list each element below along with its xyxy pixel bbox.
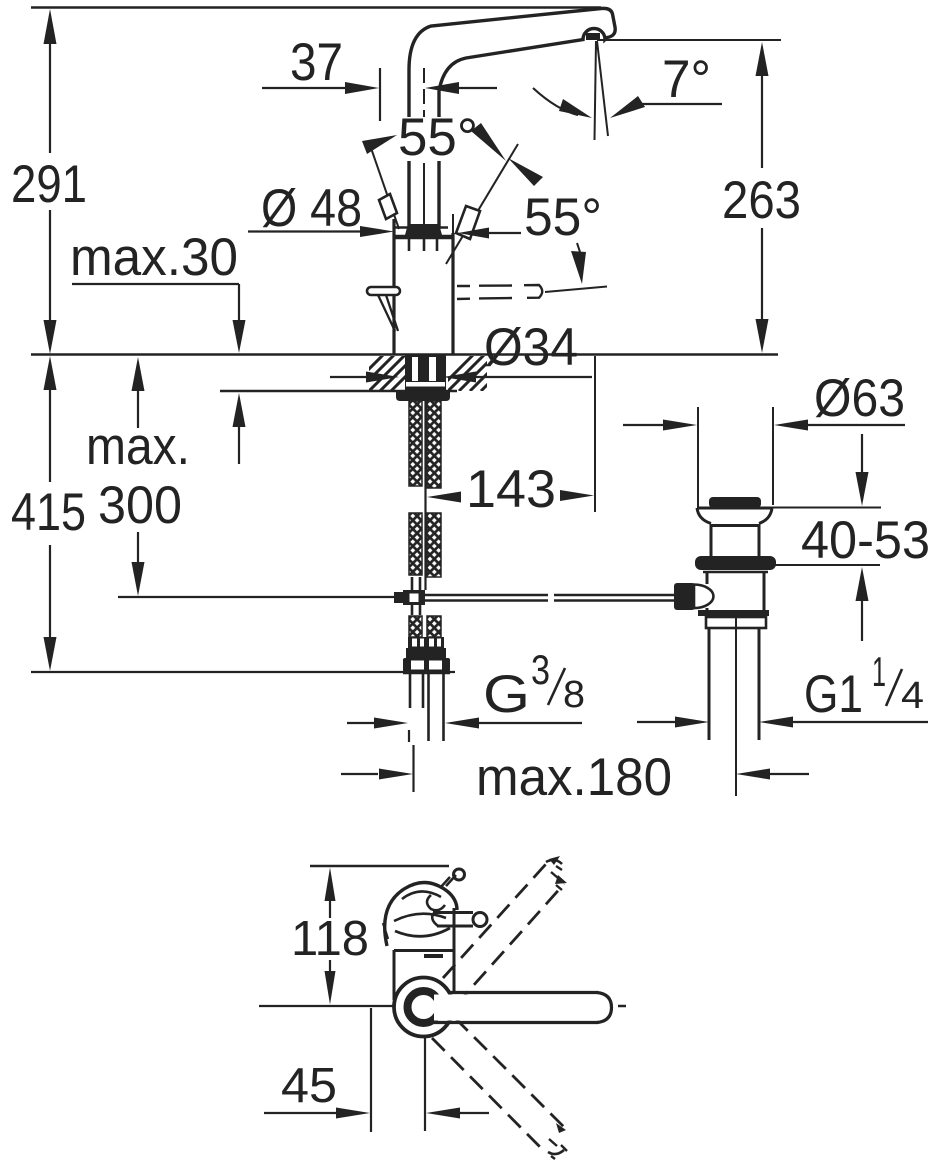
- check valve nut 1: [406, 648, 446, 658]
- label G 3/8: [483, 646, 585, 724]
- svg-text:1: 1: [872, 648, 886, 695]
- pipe stubs inside body: [409, 239, 437, 251]
- drain side port dark block: [674, 583, 695, 610]
- dimension max.415 arrows at x=50: [44, 356, 57, 671]
- dimension 143 arrows: [427, 356, 595, 512]
- svg-text:45: 45: [281, 1059, 337, 1113]
- spout outline: [409, 8, 615, 229]
- dimension max.300 arrows at x=138: [132, 357, 145, 596]
- svg-text:300: 300: [98, 476, 182, 535]
- svg-text:40-53: 40-53: [801, 511, 930, 570]
- dimension 291 vertical line with arrows: [44, 9, 57, 354]
- svg-text:263: 263: [722, 171, 801, 230]
- top view spout-tip reference line: [310, 865, 449, 867]
- svg-text:415: 415: [11, 483, 86, 542]
- spout centerline (dash): [423, 68, 425, 117]
- flexible hose section 1 right: [427, 401, 441, 488]
- dimension 45: [264, 1008, 489, 1132]
- drain plug cap dark: [709, 497, 761, 508]
- svg-text:7°: 7°: [662, 50, 711, 109]
- dimension max.30 leader and arrows: [72, 284, 246, 464]
- mounting washer: [396, 391, 450, 401]
- countertop line: [31, 353, 778, 355]
- dimension max.180: [341, 745, 809, 792]
- label 55 deg upper: [396, 117, 484, 161]
- dimension 118: [325, 868, 336, 1005]
- top reference line (spout max height): [31, 6, 601, 9]
- svg-text:Ø 48: Ø 48: [261, 179, 362, 238]
- faucet body right wall: [451, 233, 454, 355]
- diameter 34 arrows: [330, 372, 592, 383]
- top view dome cap: [383, 882, 457, 946]
- flexible hose section 2 left: [409, 513, 422, 575]
- svg-text:55°: 55°: [398, 108, 478, 167]
- drain lower cylinder: [707, 573, 764, 611]
- tail extension tick: [408, 730, 410, 742]
- svg-text:G: G: [483, 665, 530, 724]
- dimension 263 vertical with arrows: [756, 42, 769, 353]
- 55 deg lower indicator: diagonal line, bowtie, flag, leader arrow: [446, 123, 586, 284]
- svg-text:143: 143: [466, 460, 556, 519]
- dimension 40-53: [753, 434, 881, 641]
- supply tail right: [429, 674, 444, 741]
- flexible hose section 3 right: [427, 616, 441, 637]
- drain flange outline: [697, 508, 772, 524]
- dashed swivel tube lower: [432, 1018, 567, 1159]
- svg-text:Ø34: Ø34: [484, 318, 578, 377]
- pop-up pull rod vertical: [424, 401, 426, 590]
- body shoulder heavy line: [393, 235, 453, 240]
- body top rim: [394, 226, 448, 228]
- label G1 1/4: [804, 648, 924, 724]
- supply tail left: [410, 674, 423, 708]
- counter hatch right: [437, 355, 517, 391]
- check valve slot row: [408, 637, 444, 648]
- bottom reference line: [31, 671, 455, 673]
- svg-text:37: 37: [290, 33, 343, 92]
- threaded shank dark: [405, 355, 446, 391]
- top view handle rod: [432, 913, 487, 927]
- svg-text:max.180: max.180: [476, 748, 672, 807]
- svg-text:118: 118: [291, 912, 369, 966]
- spout tip ticks: [440, 875, 456, 888]
- 55 deg upper left indicator: arrowhead, line, handle flag: [362, 135, 399, 229]
- drain: diameter 63 extension lines: [698, 407, 773, 507]
- 7 degree stream lines: [595, 41, 609, 140]
- hose fitting stem: [412, 577, 420, 615]
- top view spout bar: [433, 993, 626, 1023]
- svg-text:G1: G1: [804, 665, 863, 724]
- pop-up rod horizontal right part (to drain): [425, 595, 676, 601]
- pop-up rod horizontal left part: [118, 596, 395, 598]
- dimension G 3/8: [347, 718, 582, 729]
- handle base dark blob: [405, 224, 442, 235]
- drain washer line: [703, 571, 768, 573]
- svg-text:max.30: max.30: [70, 228, 238, 287]
- drain upper cylinder: [711, 524, 759, 557]
- aerator dark outlet: [586, 33, 600, 40]
- counter underside line: [220, 390, 457, 392]
- svg-text:3: 3: [531, 646, 550, 693]
- supply socket dashed tube: [457, 285, 607, 299]
- svg-text:Ø63: Ø63: [814, 369, 905, 428]
- diameter 48 leader arrow: [248, 226, 394, 237]
- drain tailpipe: [709, 629, 759, 740]
- faucet body left wall: [392, 219, 395, 355]
- top view handle axis line: [259, 1005, 394, 1007]
- svg-text:55°: 55°: [524, 188, 602, 247]
- counter hatch left: [347, 355, 427, 391]
- check valve nut 2 with windows: [403, 658, 450, 672]
- drain lower dark band: [698, 610, 769, 616]
- flexible hose section 2 right: [427, 513, 441, 577]
- top view body square: [394, 908, 454, 1000]
- dimension 37 arrows and tick: [262, 68, 497, 121]
- check valve bottom edge: [403, 672, 450, 675]
- top view cartridge ring: [408, 991, 440, 1023]
- dimension 263 reference line: [597, 39, 781, 41]
- side lever: [367, 287, 400, 331]
- flexible hose section 3 left: [409, 616, 422, 637]
- drain coupling white band: [706, 617, 766, 628]
- svg-text:8: 8: [563, 674, 585, 716]
- 7 degree arc with arrowhead: [533, 88, 578, 115]
- pop-up rod tee joint: [394, 590, 425, 605]
- svg-text:291: 291: [11, 155, 87, 214]
- drain centerline: [735, 617, 737, 796]
- svg-text:4: 4: [901, 675, 924, 717]
- dashed swivel tube upper: [443, 856, 567, 1005]
- top view escutcheon outer circle: [394, 978, 453, 1037]
- top view spout tip circle: [454, 869, 465, 880]
- flexible hose section 1 left: [409, 401, 422, 486]
- drain side port cup: [694, 585, 713, 609]
- dimension G1 1/4: [637, 717, 928, 728]
- drain locknut dark: [695, 556, 776, 570]
- diameter 63 arrows: [623, 420, 905, 431]
- 7 degree leader arrow: [610, 96, 645, 118]
